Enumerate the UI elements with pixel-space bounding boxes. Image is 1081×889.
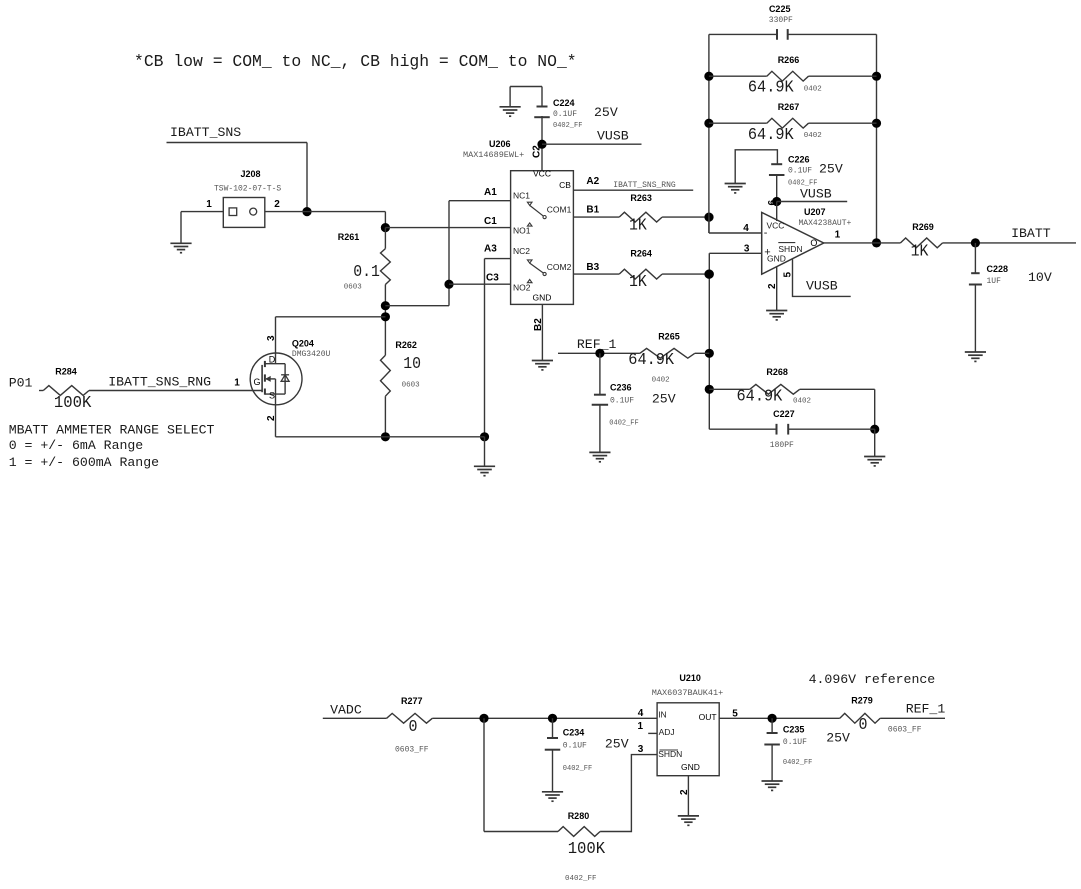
svg-text:B2: B2 — [533, 318, 544, 331]
svg-text:VUSB: VUSB — [806, 279, 838, 294]
svg-text:COM1: COM1 — [547, 204, 572, 214]
svg-text:0402_FF: 0402_FF — [788, 180, 817, 188]
svg-text:3: 3 — [638, 744, 644, 755]
svg-text:0402_FF: 0402_FF — [783, 759, 812, 767]
svg-text:330PF: 330PF — [769, 16, 793, 25]
svg-text:2: 2 — [679, 789, 690, 795]
svg-text:Q204: Q204 — [292, 338, 314, 348]
svg-text:R268: R268 — [766, 367, 788, 377]
svg-text:MBATT AMMETER RANGE SELECT: MBATT AMMETER RANGE SELECT — [9, 423, 215, 438]
svg-text:R269: R269 — [912, 222, 934, 232]
svg-text:100K: 100K — [54, 393, 92, 412]
svg-text:C235: C235 — [783, 724, 805, 734]
svg-text:D: D — [269, 355, 276, 365]
svg-text:1: 1 — [234, 378, 240, 389]
svg-text:*CB low = COM_ to NC_, CB high: *CB low = COM_ to NC_, CB high = COM_ to… — [134, 52, 577, 71]
svg-text:VCC: VCC — [767, 220, 785, 230]
svg-text:IN: IN — [658, 709, 667, 719]
svg-text:C228: C228 — [987, 264, 1009, 274]
svg-text:25V: 25V — [819, 162, 843, 177]
svg-text:64.9K: 64.9K — [737, 387, 783, 406]
svg-text:R284: R284 — [55, 367, 77, 377]
svg-text:0.1UF: 0.1UF — [610, 396, 634, 405]
svg-text:TSW-102-07-T-S: TSW-102-07-T-S — [214, 185, 281, 194]
svg-text:OUT: OUT — [699, 712, 717, 722]
svg-text:C3: C3 — [486, 272, 499, 283]
svg-text:0: 0 — [409, 717, 418, 736]
svg-text:R279: R279 — [851, 696, 873, 706]
svg-text:A3: A3 — [484, 244, 497, 255]
svg-text:CB: CB — [559, 180, 571, 190]
svg-text:C236: C236 — [610, 383, 632, 393]
svg-text:VCC: VCC — [533, 168, 551, 178]
svg-text:G: G — [253, 377, 260, 387]
svg-text:A2: A2 — [586, 176, 599, 187]
svg-text:25V: 25V — [826, 730, 850, 745]
svg-text:U207: U207 — [804, 207, 826, 217]
svg-text:B1: B1 — [586, 204, 599, 215]
svg-text:180PF: 180PF — [770, 441, 794, 450]
svg-text:R267: R267 — [778, 102, 800, 112]
svg-text:0.1UF: 0.1UF — [788, 167, 812, 176]
svg-text:S: S — [269, 391, 275, 401]
svg-text:J208: J208 — [240, 169, 260, 179]
svg-text:100K: 100K — [568, 839, 606, 858]
svg-text:0: 0 — [859, 715, 868, 734]
svg-text:P01: P01 — [9, 376, 33, 391]
svg-text:2: 2 — [266, 415, 277, 421]
svg-text:0402_FF: 0402_FF — [565, 875, 597, 883]
svg-text:C225: C225 — [769, 4, 791, 14]
svg-text:1UF: 1UF — [987, 277, 1002, 286]
svg-text:MAX14689EWL+: MAX14689EWL+ — [463, 150, 524, 160]
svg-text:0402: 0402 — [804, 132, 822, 140]
svg-text:U210: U210 — [679, 673, 701, 683]
svg-text:R264: R264 — [630, 249, 652, 259]
svg-text:0 = +/- 6mA Range: 0 = +/- 6mA Range — [9, 438, 144, 453]
svg-text:1: 1 — [206, 199, 212, 210]
svg-text:GND: GND — [533, 292, 552, 302]
svg-text:IBATT_SNS_RNG: IBATT_SNS_RNG — [613, 181, 676, 190]
svg-text:4: 4 — [638, 708, 644, 719]
svg-text:A1: A1 — [484, 187, 497, 198]
svg-text:IBATT: IBATT — [1011, 226, 1051, 241]
svg-text:C2: C2 — [532, 145, 543, 158]
svg-text:0402_FF: 0402_FF — [609, 420, 638, 428]
svg-text:NC2: NC2 — [513, 246, 530, 256]
svg-text:NO1: NO1 — [513, 226, 531, 236]
svg-text:1: 1 — [835, 230, 841, 241]
svg-text:C224: C224 — [553, 98, 575, 108]
svg-text:25V: 25V — [594, 105, 618, 120]
svg-text:2: 2 — [767, 283, 778, 289]
svg-text:IBATT_SNS: IBATT_SNS — [170, 125, 241, 140]
svg-text:1 = +/- 600mA Range: 1 = +/- 600mA Range — [9, 455, 159, 470]
svg-text:64.9K: 64.9K — [628, 350, 674, 369]
svg-text:25V: 25V — [652, 391, 676, 406]
svg-text:REF_1: REF_1 — [906, 702, 946, 717]
svg-text:0603: 0603 — [344, 284, 363, 292]
svg-text:VUSB: VUSB — [597, 129, 629, 144]
svg-text:MAX4238AUT+: MAX4238AUT+ — [799, 219, 852, 228]
svg-text:REF_1: REF_1 — [577, 337, 617, 352]
svg-text:NC1: NC1 — [513, 190, 530, 200]
svg-text:GND: GND — [681, 762, 700, 772]
svg-text:ADJ: ADJ — [659, 727, 675, 737]
svg-text:64.9K: 64.9K — [748, 78, 794, 97]
svg-text:-: - — [764, 227, 768, 239]
svg-text:DMG3420U: DMG3420U — [292, 350, 331, 359]
svg-text:0.1UF: 0.1UF — [553, 110, 577, 119]
svg-text:IBATT_SNS_RNG: IBATT_SNS_RNG — [108, 375, 211, 390]
svg-text:GND: GND — [767, 253, 786, 263]
svg-text:4: 4 — [743, 223, 749, 234]
svg-text:B3: B3 — [586, 262, 599, 273]
svg-text:0.1UF: 0.1UF — [783, 738, 807, 747]
svg-text:R266: R266 — [778, 55, 800, 65]
svg-text:0402_FF: 0402_FF — [563, 765, 592, 773]
svg-text:64.9K: 64.9K — [748, 125, 794, 144]
svg-text:3: 3 — [266, 335, 277, 341]
svg-text:R277: R277 — [401, 696, 423, 706]
svg-text:1: 1 — [638, 721, 644, 732]
svg-text:R265: R265 — [658, 331, 680, 341]
svg-text:U206: U206 — [489, 139, 511, 149]
svg-text:0603_FF: 0603_FF — [888, 726, 922, 735]
svg-text:MAX6037BAUK41+: MAX6037BAUK41+ — [652, 688, 723, 698]
svg-text:C234: C234 — [563, 727, 585, 737]
svg-text:10V: 10V — [1028, 270, 1052, 285]
svg-text:O: O — [810, 238, 817, 248]
svg-text:0603: 0603 — [402, 382, 421, 390]
svg-text:2: 2 — [274, 199, 280, 210]
svg-text:0603_FF: 0603_FF — [395, 746, 429, 755]
svg-text:0402_FF: 0402_FF — [553, 122, 582, 130]
svg-text:1K: 1K — [629, 272, 647, 291]
svg-text:0.1UF: 0.1UF — [563, 741, 587, 750]
svg-text:1K: 1K — [629, 216, 647, 235]
svg-text:0402: 0402 — [652, 377, 670, 385]
svg-text:0402: 0402 — [804, 85, 822, 93]
svg-text:VUSB: VUSB — [800, 187, 832, 202]
svg-text:NO2: NO2 — [513, 283, 531, 293]
svg-text:VADC: VADC — [330, 703, 362, 718]
svg-text:25V: 25V — [605, 736, 629, 751]
svg-text:3: 3 — [744, 243, 750, 254]
svg-text:COM2: COM2 — [547, 262, 572, 272]
svg-text:1K: 1K — [911, 241, 929, 260]
svg-text:0.1: 0.1 — [353, 262, 380, 281]
svg-text:5: 5 — [783, 272, 794, 278]
svg-text:0402: 0402 — [793, 398, 811, 406]
svg-text:4.096V reference: 4.096V reference — [809, 672, 936, 687]
svg-text:R263: R263 — [630, 193, 652, 203]
svg-text:R262: R262 — [395, 340, 417, 350]
svg-text:R280: R280 — [568, 811, 590, 821]
svg-text:R261: R261 — [338, 232, 360, 242]
svg-text:C1: C1 — [484, 216, 497, 227]
svg-text:C227: C227 — [773, 409, 795, 419]
svg-text:C226: C226 — [788, 155, 810, 165]
svg-text:10: 10 — [403, 354, 421, 373]
